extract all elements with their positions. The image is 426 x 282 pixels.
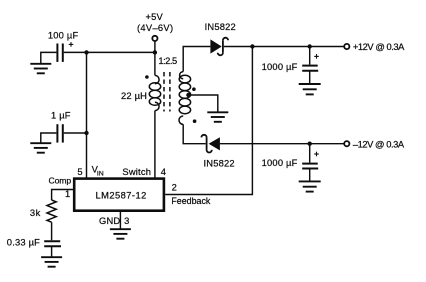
- svg-text:Switch: Switch: [122, 167, 151, 177]
- ground at 100uF: [30, 64, 51, 74]
- wire secondary top to rail corner: [183, 47, 210, 72]
- label 1000 uF bottom: [262, 158, 298, 168]
- label 1 uF: [51, 111, 71, 121]
- label +12V @ 0.3A: [353, 42, 405, 52]
- wire +12V rail to cap: [309, 47, 311, 65]
- wire primary to switch pin 4: [154, 111, 156, 179]
- wire ground to 1uF: [41, 133, 57, 143]
- svg-text:3k: 3k: [30, 208, 41, 218]
- wire secondary bottom to -12V rail: [183, 124, 206, 143]
- wire center tap to ground: [188, 95, 218, 112]
- phase dot secondary bottom: [193, 119, 197, 123]
- pin 2 label: [172, 183, 177, 193]
- junction +5V / VIN rail: [153, 50, 157, 54]
- svg-text:100 µF: 100 µF: [48, 30, 79, 40]
- svg-text:(4V–6V): (4V–6V): [137, 23, 173, 33]
- wire +12V rail: [224, 46, 344, 48]
- svg-text:1000 µF: 1000 µF: [262, 62, 298, 72]
- pin 4 label: [161, 167, 166, 177]
- transformer T1 secondary winding: [179, 72, 191, 125]
- svg-text:3: 3: [124, 216, 129, 226]
- label 0.33 uF: [7, 237, 40, 247]
- pin 3 label: [124, 216, 129, 226]
- wire resistor to 0.33uF: [51, 222, 53, 240]
- junction -12V rail / output cap: [308, 142, 312, 146]
- svg-text:IN5822: IN5822: [205, 22, 236, 32]
- node +5V input terminal (open circle): [152, 36, 157, 41]
- pin 5 label: [77, 167, 82, 177]
- svg-text:Feedback: Feedback: [171, 196, 211, 206]
- svg-text:+5V: +5V: [145, 12, 163, 22]
- ground at 1uF: [30, 143, 51, 153]
- svg-text:4: 4: [161, 167, 166, 177]
- wire 100uF to VIN node: [64, 51, 87, 53]
- svg-text:2: 2: [172, 183, 177, 193]
- capacitor 1000uF top: [302, 66, 318, 71]
- label turns ratio 1:2.5: [158, 56, 177, 66]
- label IN5822 bottom: [204, 158, 235, 168]
- wire cap to ground: [309, 169, 311, 182]
- capacitor 1uF: [57, 124, 62, 142]
- ground at 0.33uF: [41, 257, 62, 267]
- label (4V-6V): [137, 23, 173, 33]
- svg-text:5: 5: [77, 167, 82, 177]
- node +12V output terminal (open circle): [344, 44, 349, 49]
- svg-text:LM2587-12: LM2587-12: [96, 190, 147, 200]
- label Feedback: [171, 196, 211, 206]
- wire VIN rail: [87, 51, 155, 53]
- label +5V: [145, 12, 163, 22]
- svg-text:1000 µF: 1000 µF: [262, 158, 298, 168]
- wire comp pin 1 to RC network: [52, 190, 75, 201]
- diode D1 IN5822 (schottky, anode left): [210, 38, 228, 56]
- junction 1uF / VIN vertical: [84, 131, 88, 135]
- capacitor 0.33uF: [44, 241, 61, 246]
- transformer T1 primary winding: [149, 75, 160, 110]
- label 22 uH: [121, 91, 147, 101]
- svg-text:22 µH: 22 µH: [121, 91, 147, 101]
- ground at center tap: [207, 112, 228, 122]
- capacitor 1000uF top plus sign: [314, 54, 319, 59]
- wire feedback from +12V junction to pin 2: [165, 47, 252, 195]
- svg-text:–12V @ 0.3A: –12V @ 0.3A: [353, 139, 405, 149]
- label -12V @ 0.3A: [353, 139, 405, 149]
- capacitor 1000uF bottom: [302, 164, 318, 169]
- label 100 uF: [48, 30, 79, 40]
- phase dot primary: [145, 75, 149, 79]
- phase dot secondary top: [192, 87, 196, 91]
- label 3k: [30, 208, 41, 218]
- svg-text:IN: IN: [97, 171, 104, 178]
- ground at pin 3: [110, 229, 131, 239]
- label IN5822 top: [205, 22, 236, 32]
- label Comp: [49, 176, 72, 186]
- wire cap to ground: [309, 71, 311, 84]
- svg-text:1:2.5: 1:2.5: [158, 56, 177, 66]
- label GND: [99, 216, 120, 226]
- op-amp U1 LM2587-12 body: [74, 179, 164, 211]
- svg-text:0.33 µF: 0.33 µF: [7, 237, 40, 247]
- wire pin 3 to ground: [119, 212, 121, 230]
- diode D2 IN5822 (schottky, anode right): [201, 135, 219, 153]
- capacitor 1000uF bottom plus sign: [314, 152, 319, 157]
- svg-text:1 µF: 1 µF: [51, 111, 71, 121]
- wire +5V node to transformer primary: [154, 52, 156, 75]
- junction VIN rail / bypass branch: [84, 50, 88, 54]
- resistor 3k: [47, 200, 56, 222]
- svg-text:+12V @ 0.3A: +12V @ 0.3A: [353, 42, 405, 52]
- label LM2587-12: [96, 190, 147, 200]
- capacitor 100uF: [57, 44, 62, 62]
- ground at 1000uF top: [299, 84, 321, 94]
- wire +5V terminal to VIN rail: [154, 41, 156, 52]
- ground at 1000uF bottom: [299, 181, 321, 191]
- svg-text:GND: GND: [99, 216, 120, 226]
- capacitor 100uF plus sign: [69, 42, 74, 47]
- wire -12V rail to cap: [309, 144, 311, 163]
- wire 1uF to VIN vertical: [64, 132, 87, 134]
- svg-text:Comp: Comp: [49, 176, 72, 186]
- junction center tap: [186, 93, 190, 97]
- svg-text:1: 1: [65, 189, 70, 199]
- junction +12V rail / feedback: [250, 44, 254, 48]
- label 1000 uF top: [262, 62, 298, 72]
- junction +12V rail / output cap: [308, 44, 312, 48]
- wire VIN vertical to pin 5: [86, 52, 88, 178]
- wire 0.33uF to ground: [51, 246, 53, 257]
- wire ground to 100uF: [41, 52, 57, 63]
- pin VIN label: [92, 164, 104, 177]
- svg-text:IN5822: IN5822: [204, 158, 235, 168]
- wire -12V rail: [220, 143, 344, 145]
- pin Switch label: [122, 167, 151, 177]
- node -12V output terminal (open circle): [344, 141, 349, 146]
- transformer core: [164, 72, 170, 112]
- pin 1 label: [65, 189, 70, 199]
